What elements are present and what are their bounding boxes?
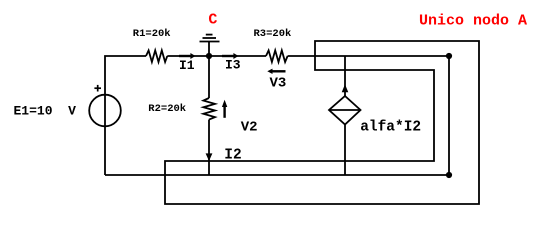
wire node A vertical x=449 [448, 56, 450, 175]
arrow I1 head [190, 53, 195, 59]
svg-text:I1: I1 [179, 58, 195, 73]
svg-text:R1=20k: R1=20k [133, 28, 171, 40]
wire node C to R3 [209, 55, 266, 57]
arrow I1 stem [179, 55, 191, 57]
svg-text:V2: V2 [241, 120, 258, 136]
wire R1 to node C [167, 55, 209, 57]
wire dependent source top [344, 56, 346, 96]
node A junction dot bottom [446, 172, 452, 178]
ground plate wide [200, 41, 220, 43]
ground plate mid [203, 37, 217, 39]
node C junction dot [206, 53, 212, 59]
bottom wire y=175 [105, 174, 449, 176]
arrow V3 stem [272, 70, 286, 72]
ground plate short [206, 34, 213, 36]
voltage source E1 circle [89, 95, 121, 127]
svg-text:Unico nodo A: Unico nodo A [419, 13, 527, 30]
resistor R2 [203, 98, 215, 120]
wire dependent source bottom [344, 125, 346, 176]
wire R2 top [208, 56, 210, 98]
wire R3 to node A dot [288, 55, 449, 57]
arrow I2 head (on R2 bottom wire) [206, 153, 213, 161]
ground stem at node C [208, 42, 210, 57]
resistor R1 [146, 50, 167, 62]
plus sign of E1 [94, 87, 101, 89]
arrow V2 head [222, 100, 227, 107]
wire E1 left branch vertical x=105 [105, 56, 146, 175]
arrow V2 stem [223, 107, 225, 118]
arrow V3 head [267, 69, 272, 74]
svg-text:R3=20k: R3=20k [254, 28, 292, 40]
wire R2 bottom [208, 120, 210, 175]
diamond chord [329, 109, 361, 111]
arrow I3 head [233, 53, 238, 59]
svg-text:R2=20k: R2=20k [148, 103, 186, 115]
wire loop node A spiral [165, 41, 479, 204]
svg-text:alfa*I2: alfa*I2 [360, 119, 421, 135]
node A junction dot top [446, 53, 452, 59]
arrow dependent source head [342, 84, 349, 92]
svg-text:E1=10 V: E1=10 V [14, 104, 77, 119]
svg-text:V3: V3 [270, 76, 287, 92]
svg-text:I3: I3 [225, 57, 241, 72]
arrow I3 stem [222, 55, 234, 57]
svg-text:I2: I2 [224, 148, 241, 164]
resistor R3 [266, 50, 288, 62]
dependent source diamond alfa*I2 [329, 96, 361, 125]
svg-text:C: C [208, 12, 217, 29]
